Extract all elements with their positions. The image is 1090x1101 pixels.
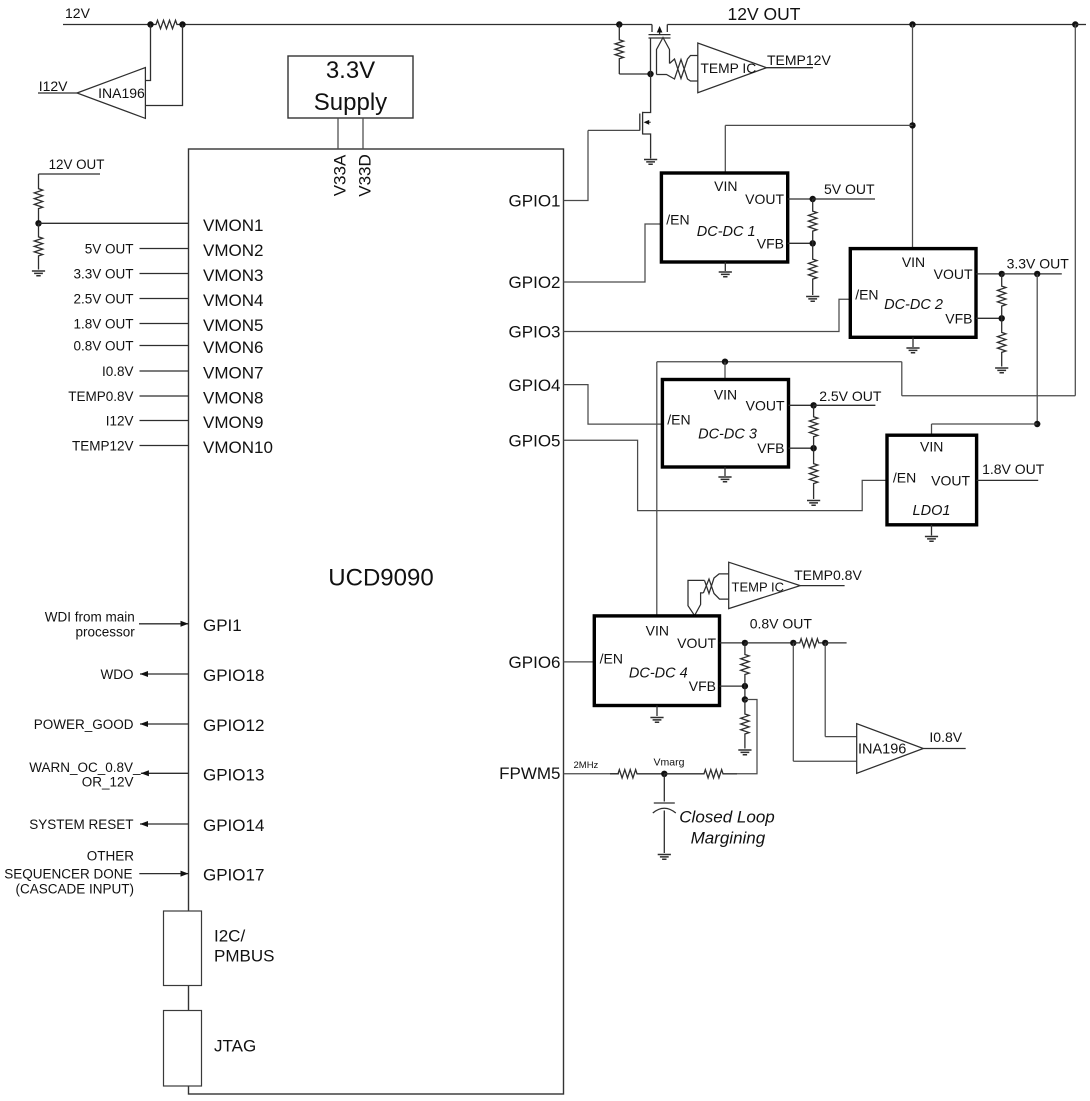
svg-text:/EN: /EN bbox=[855, 287, 878, 303]
svg-text:5V OUT: 5V OUT bbox=[85, 241, 134, 256]
svg-text:VOUT: VOUT bbox=[934, 266, 973, 282]
svg-text:I12V: I12V bbox=[39, 78, 68, 94]
svg-text:GPI1: GPI1 bbox=[203, 616, 242, 635]
svg-text:WDO: WDO bbox=[101, 667, 134, 682]
svg-text:GPIO4: GPIO4 bbox=[509, 376, 561, 395]
svg-text:2.5V OUT: 2.5V OUT bbox=[73, 291, 133, 306]
svg-text:I12V: I12V bbox=[106, 413, 134, 428]
svg-text:DC-DC 2: DC-DC 2 bbox=[884, 297, 943, 313]
svg-text:GPIO6: GPIO6 bbox=[509, 653, 561, 672]
svg-text:(CASCADE INPUT): (CASCADE INPUT) bbox=[15, 882, 134, 897]
svg-text:GPIO5: GPIO5 bbox=[509, 431, 561, 450]
svg-text:VMON1: VMON1 bbox=[203, 216, 263, 235]
svg-text:12V OUT: 12V OUT bbox=[49, 157, 105, 172]
svg-text:1.8V OUT: 1.8V OUT bbox=[982, 461, 1045, 477]
svg-text:3.3V OUT: 3.3V OUT bbox=[73, 266, 133, 281]
svg-text:/EN: /EN bbox=[893, 470, 916, 486]
svg-text:VOUT: VOUT bbox=[746, 397, 785, 413]
svg-text:Supply: Supply bbox=[314, 89, 387, 116]
svg-text:GPIO12: GPIO12 bbox=[203, 716, 264, 735]
svg-text:V33A: V33A bbox=[330, 154, 349, 196]
svg-text:3.3V OUT: 3.3V OUT bbox=[1007, 255, 1070, 271]
svg-text:WARN_OC_0.8V_: WARN_OC_0.8V_ bbox=[29, 760, 141, 775]
svg-text:VIN: VIN bbox=[714, 386, 737, 402]
svg-text:/EN: /EN bbox=[666, 212, 689, 228]
svg-text:/EN: /EN bbox=[667, 412, 690, 428]
svg-text:PMBUS: PMBUS bbox=[214, 947, 274, 966]
svg-text:I0.8V: I0.8V bbox=[102, 364, 134, 379]
svg-text:OTHER: OTHER bbox=[87, 849, 135, 864]
svg-text:processor: processor bbox=[76, 625, 136, 640]
svg-text:VOUT: VOUT bbox=[931, 472, 970, 488]
svg-text:12V: 12V bbox=[65, 5, 91, 21]
svg-text:DC-DC 3: DC-DC 3 bbox=[698, 427, 757, 443]
svg-text:/EN: /EN bbox=[600, 651, 623, 667]
svg-text:UCD9090: UCD9090 bbox=[328, 564, 433, 591]
svg-text:VOUT: VOUT bbox=[745, 191, 784, 207]
svg-text:VIN: VIN bbox=[714, 178, 737, 194]
svg-text:VMON4: VMON4 bbox=[203, 291, 263, 310]
svg-text:VFB: VFB bbox=[945, 310, 972, 326]
svg-text:3.3V: 3.3V bbox=[326, 57, 375, 84]
svg-text:0.8V OUT: 0.8V OUT bbox=[73, 338, 133, 353]
svg-text:GPIO18: GPIO18 bbox=[203, 666, 264, 685]
svg-text:I2C/: I2C/ bbox=[214, 927, 245, 946]
svg-text:INA196: INA196 bbox=[98, 85, 145, 101]
svg-text:VFB: VFB bbox=[689, 678, 716, 694]
svg-text:VMON9: VMON9 bbox=[203, 413, 263, 432]
svg-text:VMON8: VMON8 bbox=[203, 388, 263, 407]
svg-text:GPIO13: GPIO13 bbox=[203, 765, 264, 784]
svg-text:12V OUT: 12V OUT bbox=[728, 4, 801, 24]
svg-text:TEMP12V: TEMP12V bbox=[72, 438, 134, 453]
svg-text:TEMP12V: TEMP12V bbox=[767, 52, 831, 68]
svg-text:GPIO2: GPIO2 bbox=[509, 273, 561, 292]
svg-text:VIN: VIN bbox=[902, 254, 925, 270]
svg-text:DC-DC 1: DC-DC 1 bbox=[697, 224, 756, 240]
svg-text:WDI from main: WDI from main bbox=[45, 610, 135, 625]
svg-text:VIN: VIN bbox=[920, 439, 943, 455]
svg-text:OR_12V: OR_12V bbox=[82, 774, 134, 789]
svg-text:VMON3: VMON3 bbox=[203, 266, 263, 285]
svg-text:GPIO17: GPIO17 bbox=[203, 866, 264, 885]
svg-text:V33D: V33D bbox=[355, 154, 374, 197]
svg-text:JTAG: JTAG bbox=[214, 1037, 256, 1056]
svg-text:VMON7: VMON7 bbox=[203, 363, 263, 382]
svg-text:VFB: VFB bbox=[757, 440, 784, 456]
svg-text:VOUT: VOUT bbox=[677, 635, 716, 651]
svg-text:SYSTEM RESET: SYSTEM RESET bbox=[29, 817, 133, 832]
svg-text:VMON5: VMON5 bbox=[203, 316, 263, 335]
svg-text:VIN: VIN bbox=[646, 623, 669, 639]
svg-text:VFB: VFB bbox=[757, 235, 784, 251]
svg-text:I0.8V: I0.8V bbox=[929, 729, 962, 745]
svg-text:0.8V OUT: 0.8V OUT bbox=[750, 616, 813, 632]
svg-text:INA196: INA196 bbox=[858, 742, 906, 758]
svg-text:Margining: Margining bbox=[691, 829, 766, 848]
svg-text:VMON2: VMON2 bbox=[203, 241, 263, 260]
svg-text:TEMP IC: TEMP IC bbox=[732, 580, 785, 595]
svg-text:GPIO1: GPIO1 bbox=[509, 192, 561, 211]
svg-text:2MHz: 2MHz bbox=[574, 760, 599, 771]
svg-text:Closed Loop: Closed Loop bbox=[679, 808, 774, 827]
svg-text:GPIO14: GPIO14 bbox=[203, 816, 264, 835]
svg-text:LDO1: LDO1 bbox=[913, 503, 951, 519]
svg-text:TEMP0.8V: TEMP0.8V bbox=[794, 567, 862, 583]
svg-text:GPIO3: GPIO3 bbox=[509, 323, 561, 342]
svg-text:5V OUT: 5V OUT bbox=[824, 181, 875, 197]
svg-text:POWER_GOOD: POWER_GOOD bbox=[34, 717, 134, 732]
svg-text:DC-DC 4: DC-DC 4 bbox=[629, 665, 688, 681]
svg-text:2.5V OUT: 2.5V OUT bbox=[819, 388, 882, 404]
svg-text:TEMP IC: TEMP IC bbox=[701, 61, 757, 76]
svg-text:1.8V OUT: 1.8V OUT bbox=[73, 316, 133, 331]
svg-text:FPWM5: FPWM5 bbox=[499, 764, 560, 783]
svg-text:TEMP0.8V: TEMP0.8V bbox=[68, 389, 133, 404]
svg-text:VMON6: VMON6 bbox=[203, 338, 263, 357]
svg-text:SEQUENCER DONE: SEQUENCER DONE bbox=[4, 866, 132, 881]
svg-text:VMON10: VMON10 bbox=[203, 438, 273, 457]
svg-text:Vmarg: Vmarg bbox=[654, 757, 685, 769]
